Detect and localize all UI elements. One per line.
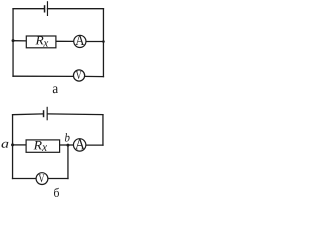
wire bottom branch right segment (circuit b) [47, 178, 68, 180]
wire top right (circuit a) [48, 8, 104, 10]
node label a (circuit b) [2, 142, 9, 148]
wire right vertical (circuit b) [102, 115, 104, 145]
wire left vertical (circuit a) [12, 9, 14, 77]
resistor Rx letter R (circuit b) [33, 141, 41, 149]
wire node b down to voltmeter branch (circuit b) [67, 145, 69, 178]
label caption б (circuit b) [54, 188, 59, 197]
ammeter A1 circle (circuit a) [74, 35, 86, 47]
voltmeter V1 circle (circuit a) [73, 70, 84, 81]
wire top left (circuit b) [13, 113, 43, 116]
resistor Rx box (circuit a) [26, 36, 56, 48]
resistor Rx subscript x (circuit b) [42, 145, 47, 151]
voltmeter V1 letter [76, 71, 82, 79]
wire bottom branch left segment (circuit a) [13, 75, 74, 77]
battery cell negative plate (circuit b) [47, 107, 48, 121]
junction node left (circuit a) [12, 39, 15, 42]
wire bottom branch left segment (circuit b) [13, 178, 37, 180]
junction node right (circuit a) [102, 40, 105, 43]
wire middle branch ammeter-to-right (circuit a) [86, 41, 103, 43]
wire middle branch node a to box (circuit b) [13, 144, 27, 146]
ammeter A2 letter [75, 139, 85, 149]
wire top left (circuit a) [13, 8, 44, 10]
label caption а (circuit a) [53, 86, 58, 93]
wire middle branch box-to-ammeter (circuit a) [56, 40, 74, 42]
wire left vertical (circuit b) [12, 115, 14, 179]
battery cell positive plate (circuit b) [43, 110, 45, 117]
wire bottom branch right segment (circuit a) [84, 75, 103, 77]
battery cell negative plate (circuit a) [47, 1, 48, 16]
junction node a dot (circuit b) [11, 143, 14, 146]
wire right vertical (circuit a) [102, 9, 104, 77]
resistor Rx letter R (circuit a) [35, 36, 43, 44]
junction node b dot (circuit b) [66, 144, 69, 147]
wire middle branch ammeter to right (circuit b) [86, 144, 103, 146]
ammeter A1 letter [75, 35, 84, 45]
wire middle branch box to node b (circuit b) [60, 144, 74, 146]
node label b (circuit b) [65, 133, 70, 141]
voltmeter V2 letter [39, 174, 45, 182]
voltmeter V2 circle (circuit b) [36, 173, 48, 185]
resistor Rx subscript x (circuit a) [43, 41, 48, 46]
wire middle branch left segment (circuit a) [13, 40, 26, 42]
ammeter A2 circle (circuit b) [73, 139, 85, 151]
battery cell positive plate (circuit a) [44, 5, 46, 12]
resistor Rx box (circuit b) [26, 140, 60, 152]
wire top right (circuit b) [48, 113, 103, 116]
